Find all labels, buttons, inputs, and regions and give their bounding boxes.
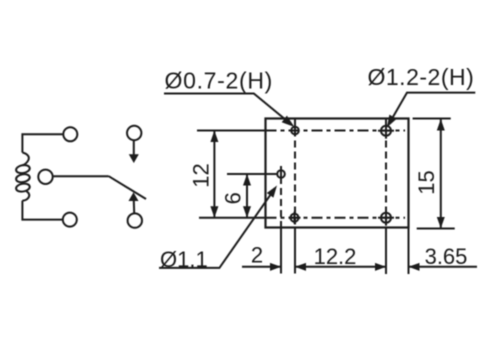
hole H1 top-left	[291, 119, 299, 137]
switch arm	[109, 176, 146, 199]
extension line below left column	[294, 228, 296, 274]
wire coil bottom lead	[22, 201, 62, 220]
hole H4 bottom-left	[289, 212, 301, 224]
centerline top hole row	[266, 130, 406, 132]
hole H2 top-right	[378, 123, 394, 139]
leader 1.1 underline	[159, 193, 272, 268]
leader 0.7 underline	[164, 94, 286, 120]
arrow NO up	[129, 192, 139, 201]
extension line below right edge	[408, 228, 410, 275]
svg-text:12: 12	[189, 163, 214, 187]
pin circle P2 bottom-left	[63, 213, 77, 227]
extension line top row left	[197, 130, 266, 132]
leader 1.2 underline	[392, 93, 476, 120]
extension line below middle column	[280, 228, 282, 274]
extension line middle hole	[227, 173, 277, 175]
centerline middle hole column	[280, 166, 282, 228]
dimension line 12.2	[295, 263, 386, 271]
svg-text:3.65: 3.65	[425, 244, 468, 269]
leader 1.2 arrowhead	[387, 115, 397, 128]
dimension line 15	[437, 119, 445, 228]
wire NC lead	[133, 140, 135, 155]
svg-text:6: 6	[221, 192, 246, 204]
pin circle NC top-right	[127, 126, 141, 140]
hole H3 middle	[277, 169, 285, 180]
svg-text:2: 2	[251, 243, 263, 268]
pin circle COM common	[38, 170, 52, 184]
dimension line 3.65	[409, 263, 478, 271]
dimension line 12	[210, 131, 218, 218]
wire NO lead	[133, 201, 135, 214]
pin circle P1 top-left	[63, 127, 77, 141]
extension bar 15 top	[413, 118, 451, 120]
centerline right hole column	[385, 119, 387, 228]
pin circle NO bottom-right	[128, 213, 142, 227]
extension line below right column	[385, 228, 387, 275]
dimension line 6	[243, 174, 251, 218]
centerline left hole column	[294, 119, 296, 228]
centerline bottom hole row	[266, 217, 406, 219]
wire coil top lead	[22, 134, 63, 152]
svg-text:12.2: 12.2	[314, 244, 357, 269]
svg-text:Ø0.7-2(H): Ø0.7-2(H)	[165, 67, 274, 93]
wire common arm	[53, 175, 109, 177]
svg-text:Ø1.1: Ø1.1	[160, 247, 208, 272]
extension line bottom row left	[199, 217, 266, 219]
leader 1.1 arrowhead	[267, 186, 277, 198]
leader 0.7 arrowhead	[282, 116, 295, 127]
arrow NC down	[129, 154, 139, 163]
PCB outline rectangle	[266, 119, 409, 228]
svg-text:15: 15	[414, 170, 439, 194]
svg-text:Ø1.2-2(H): Ø1.2-2(H)	[368, 64, 475, 90]
coil L1	[15, 153, 30, 201]
dimension line 2	[242, 263, 281, 271]
hole H5 bottom-right	[378, 210, 394, 226]
extension bar 15 bottom	[417, 228, 455, 230]
